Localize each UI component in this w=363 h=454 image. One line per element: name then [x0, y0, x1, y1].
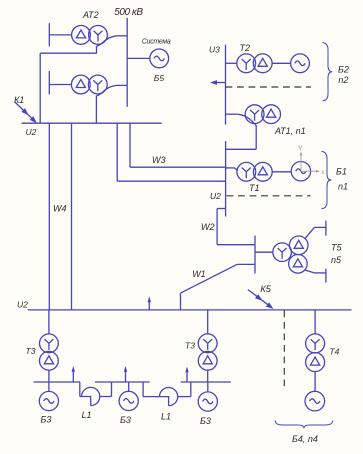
svg-text:АТ2: АТ2	[82, 10, 99, 20]
svg-text:W1: W1	[192, 269, 206, 279]
svg-text:U2: U2	[17, 300, 28, 310]
svg-text:n5: n5	[331, 255, 342, 265]
svg-text:Б3: Б3	[41, 414, 52, 424]
svg-text:Б5: Б5	[154, 73, 165, 83]
svg-text:L1: L1	[161, 412, 171, 422]
svg-text:U2: U2	[26, 127, 37, 137]
svg-text:К5: К5	[260, 284, 271, 294]
svg-text:Y: Y	[298, 144, 303, 153]
svg-text:W4: W4	[53, 204, 67, 214]
svg-text:К1: К1	[14, 95, 24, 105]
svg-text:Б2: Б2	[338, 64, 349, 74]
svg-text:Т5: Т5	[331, 243, 342, 253]
svg-text:Т3: Т3	[185, 340, 195, 350]
svg-text:n1: n1	[338, 182, 348, 192]
svg-text:Т2: Т2	[240, 43, 251, 53]
svg-text:W3: W3	[152, 155, 166, 165]
svg-text:Б3: Б3	[120, 415, 131, 425]
svg-text:Б1: Б1	[336, 167, 347, 177]
svg-text:Т3: Т3	[26, 346, 36, 356]
svg-text:U3: U3	[209, 45, 220, 55]
svg-text:U2: U2	[210, 191, 221, 201]
svg-text:n2: n2	[338, 75, 348, 85]
svg-text:W2: W2	[201, 222, 215, 232]
svg-text:L1: L1	[82, 410, 92, 420]
svg-text:АТ1, n1: АТ1, n1	[274, 126, 306, 136]
svg-text:Т1: Т1	[249, 183, 260, 193]
svg-text:Т4: Т4	[329, 347, 339, 357]
svg-text:Б3: Б3	[200, 416, 211, 426]
svg-text:Б4, n4: Б4, n4	[292, 434, 318, 444]
svg-text:Система: Система	[142, 39, 171, 46]
svg-text:500 кВ: 500 кВ	[114, 7, 143, 18]
